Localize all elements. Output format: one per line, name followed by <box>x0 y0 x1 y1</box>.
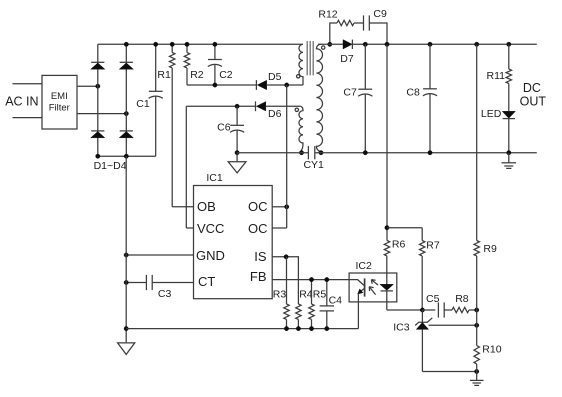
label IC1 <box>206 172 223 184</box>
transformer primary winding <box>299 44 303 85</box>
wire AC input top lead <box>13 83 43 85</box>
wire D6 anode to aux winding <box>266 105 301 107</box>
svg-text:C1: C1 <box>136 98 150 110</box>
transformer secondary winding <box>316 44 322 152</box>
svg-text:R9: R9 <box>483 243 497 255</box>
capacitor C3 <box>146 275 152 290</box>
svg-text:R10: R10 <box>482 344 501 356</box>
node C4 top <box>325 277 329 281</box>
label D5 <box>268 71 282 83</box>
pin label OC (upper) <box>248 199 268 214</box>
wire snubber left drop <box>330 23 337 44</box>
svg-text:R8: R8 <box>455 293 469 305</box>
wire VCC drop <box>185 106 187 228</box>
wire primary ground vertical <box>125 156 127 342</box>
svg-text:D7: D7 <box>340 53 354 65</box>
node IS tap R3 <box>284 255 288 259</box>
svg-text:D6: D6 <box>268 108 282 120</box>
node C7 top <box>363 42 367 46</box>
resistor R4 <box>296 304 301 329</box>
diode D4 (bridge lower-right) <box>119 131 133 138</box>
optocoupler IC2 box <box>349 273 397 302</box>
light arrow 2 <box>369 287 375 295</box>
node C6 tap <box>235 104 239 108</box>
shunt regulator IC3 <box>415 310 432 372</box>
label R4 <box>299 288 313 300</box>
wire bridge left leg <box>97 44 99 156</box>
svg-text:OB: OB <box>197 199 216 214</box>
wire HV top rail <box>98 43 303 45</box>
label R9 <box>483 243 497 255</box>
node C9/R6 rail <box>385 42 389 46</box>
capacitor C2 <box>208 44 222 85</box>
node C1 top <box>154 42 158 46</box>
svg-text:EMI: EMI <box>51 91 68 102</box>
transformer core <box>307 41 313 75</box>
wire GND pin <box>126 254 193 256</box>
label IC2 <box>356 260 373 272</box>
pin label OC (lower) <box>248 221 268 236</box>
svg-text:IS: IS <box>254 249 267 264</box>
node snubber left <box>328 42 332 46</box>
svg-text:IC2: IC2 <box>356 260 373 272</box>
wire bridge bottom <box>98 155 156 157</box>
svg-text:R3: R3 <box>273 288 287 300</box>
pin label GND <box>196 248 225 263</box>
resistor R12 <box>337 20 354 25</box>
label D7 <box>340 53 354 65</box>
wire IS pin <box>272 257 298 304</box>
node bridge right top <box>124 42 128 46</box>
label C7 <box>343 87 357 99</box>
label C5 <box>426 293 440 305</box>
node R6/R7 junction <box>385 226 389 230</box>
wire OC upper pin <box>272 206 287 208</box>
resistor R1 <box>170 44 175 207</box>
node R8 right <box>475 308 479 312</box>
svg-text:DC: DC <box>523 81 541 95</box>
label LED <box>481 108 502 120</box>
phototransistor emitter lead <box>358 288 365 328</box>
label R12 <box>318 8 337 20</box>
node aux winding bottom <box>299 151 303 155</box>
resistor R5 <box>309 280 314 329</box>
wire secondary rail to D7 <box>318 43 343 45</box>
label R5 <box>313 288 327 300</box>
capacitor C4 <box>320 280 334 329</box>
svg-text:OUT: OUT <box>520 94 547 108</box>
primary polarity dot <box>297 75 300 78</box>
svg-text:R1: R1 <box>157 69 171 81</box>
svg-text:AC IN: AC IN <box>5 95 38 109</box>
node EMI bottom / bridge right leg <box>124 111 128 115</box>
label D6 <box>268 108 282 120</box>
EMI filter label <box>49 91 70 114</box>
svg-text:R7: R7 <box>426 240 440 252</box>
node R2 top <box>185 42 189 46</box>
pin label CT <box>198 274 215 289</box>
opto LED <box>380 256 394 310</box>
wire D5 anode to drain node <box>267 84 303 86</box>
wire OC lower pin <box>272 227 287 229</box>
label R7 <box>426 240 440 252</box>
svg-text:VCC: VCC <box>197 221 224 236</box>
wire clamp (R2/C2 to D5 cathode) <box>187 84 256 86</box>
wire OB pin <box>172 206 193 208</box>
phototransistor collector lead <box>349 280 364 286</box>
svg-text:C4: C4 <box>329 294 343 306</box>
node R5 bottom <box>309 326 313 330</box>
wire VCC pin <box>186 227 193 229</box>
light arrow 1 <box>371 280 378 285</box>
wire CT pin right <box>152 282 193 284</box>
node bridge bottom right <box>124 154 128 158</box>
pin label IS <box>254 249 267 264</box>
svg-text:C2: C2 <box>219 69 233 81</box>
svg-text:IC3: IC3 <box>393 322 410 334</box>
capacitor CY1 <box>308 146 314 159</box>
node C8 top <box>428 42 432 46</box>
svg-text:OC: OC <box>248 221 268 236</box>
ground (earth) at R10 <box>470 372 484 386</box>
svg-text:FB: FB <box>250 269 267 284</box>
svg-text:C3: C3 <box>158 288 172 300</box>
label C3 <box>158 288 172 300</box>
wire R6-R7 bridge <box>387 227 422 229</box>
label DC OUT <box>520 81 547 109</box>
capacitor C9 <box>364 15 370 30</box>
wire node to C5 <box>422 309 435 311</box>
node reference junction <box>475 323 479 327</box>
resistor R10 <box>474 325 479 371</box>
label C9 <box>373 8 387 20</box>
label D1~D4 <box>94 160 127 172</box>
diode D6 <box>256 101 266 111</box>
ground (triangle) primary <box>118 343 135 355</box>
diode D7 <box>343 40 352 49</box>
transformer auxiliary winding <box>299 106 303 152</box>
svg-text:C7: C7 <box>343 87 357 99</box>
wire R12 to C9 <box>354 22 364 24</box>
svg-text:LED: LED <box>481 108 502 120</box>
svg-text:R4: R4 <box>299 288 313 300</box>
resistor R6 <box>384 44 389 256</box>
node CT tap <box>124 280 128 284</box>
resistor R11 <box>506 44 511 111</box>
node GND tap <box>124 253 128 257</box>
wire DC output rail <box>352 43 536 45</box>
label IC3 <box>393 322 410 334</box>
resistor R8 <box>452 307 469 312</box>
diode D1 (bridge upper-left) <box>91 62 105 69</box>
svg-text:R6: R6 <box>392 239 406 251</box>
wire R8 to R9 column <box>469 309 477 311</box>
wire AC input bottom lead <box>13 117 43 119</box>
diode D3 (bridge lower-left) <box>91 131 105 138</box>
label C1 <box>136 98 150 110</box>
svg-text:D5: D5 <box>268 71 282 83</box>
svg-text:C5: C5 <box>426 293 440 305</box>
label R10 <box>482 344 501 356</box>
svg-text:D1~D4: D1~D4 <box>94 160 127 172</box>
wire EMI output bottom <box>77 113 126 115</box>
node R9 top <box>475 42 479 46</box>
wire drain vertical <box>286 85 288 228</box>
node bridge bottom left <box>96 154 100 158</box>
svg-text:C6: C6 <box>217 122 231 134</box>
ground (earth) at output <box>502 153 517 169</box>
svg-text:C9: C9 <box>373 8 387 20</box>
wire opto LED cathode to node <box>387 309 423 311</box>
capacitor C7 <box>358 44 372 152</box>
wire snubber right drop <box>369 23 387 44</box>
wire reference <box>429 324 477 326</box>
AC IN label <box>5 95 38 109</box>
node anode/ground junction <box>475 369 479 373</box>
node C8 bottom <box>428 151 432 155</box>
label C8 <box>406 87 420 99</box>
node drain junction <box>285 83 289 87</box>
label R11 <box>487 70 506 82</box>
node C7 bottom <box>363 151 367 155</box>
svg-text:CT: CT <box>198 274 215 289</box>
pin label OB <box>197 199 216 214</box>
wire D6 cathode to VCC drop <box>186 105 255 107</box>
capacitor C1 <box>149 44 163 156</box>
label C2 <box>219 69 233 81</box>
EMI filter block <box>42 75 77 129</box>
wire bottom rail right segment <box>315 152 537 154</box>
svg-text:CY1: CY1 <box>303 159 324 171</box>
node C4 bottom <box>325 326 329 330</box>
node R3 bottom <box>284 326 288 330</box>
label R3 <box>273 288 287 300</box>
node R11 top <box>507 42 511 46</box>
node OC junction <box>285 205 289 209</box>
wire bridge right leg <box>125 44 127 156</box>
node compensation junction <box>420 308 424 312</box>
capacitor C6 <box>230 106 244 152</box>
node EMI top / bridge left leg <box>96 84 100 88</box>
label R2 <box>190 69 204 81</box>
svg-text:IC1: IC1 <box>206 172 223 184</box>
label R1 <box>157 69 171 81</box>
node R5 top <box>309 277 313 281</box>
wire CT pin left <box>126 282 146 284</box>
wire R9 node to ref node <box>476 310 478 325</box>
resistor R9 <box>474 44 479 310</box>
diode D5 <box>256 80 266 90</box>
aux polarity dot <box>295 108 298 111</box>
wire EMI output top <box>77 85 98 87</box>
label CY1 <box>303 159 324 171</box>
node LED bottom <box>507 151 511 155</box>
capacitor C5 <box>438 302 444 317</box>
pin label FB <box>250 269 267 284</box>
wire C5 to R8 <box>444 309 452 311</box>
label C6 <box>217 122 231 134</box>
wire FB pin <box>272 279 349 281</box>
pin label VCC <box>197 221 224 236</box>
node R1 top <box>170 42 174 46</box>
svg-text:R12: R12 <box>318 8 337 20</box>
svg-text:Filter: Filter <box>49 103 70 114</box>
wire IC3 anode to ground node <box>422 371 476 373</box>
node secondary winding bottom <box>319 151 323 155</box>
label R8 <box>455 293 469 305</box>
svg-text:OC: OC <box>248 199 268 214</box>
node ground wire tap <box>124 326 128 330</box>
LED indicator <box>502 111 515 152</box>
resistor R7 <box>420 228 425 310</box>
svg-text:GND: GND <box>196 248 225 263</box>
node C2 top <box>213 42 217 46</box>
op-amp/controller IC1 box <box>194 186 273 299</box>
svg-text:R11: R11 <box>487 70 506 82</box>
diode D2 (bridge upper-right) <box>119 62 133 69</box>
ground (triangle) at C6 <box>228 153 246 173</box>
wire primary ground bus <box>126 328 358 330</box>
resistor R2 <box>184 44 189 85</box>
resistor R3 <box>284 257 289 329</box>
node R4 bottom <box>296 326 300 330</box>
node C2 bottom <box>213 83 217 87</box>
capacitor C8 <box>423 44 437 152</box>
label R6 <box>392 239 406 251</box>
phototransistor base bar <box>364 278 366 296</box>
secondary polarity dot <box>322 46 325 49</box>
svg-text:C8: C8 <box>406 87 420 99</box>
svg-text:R5: R5 <box>313 288 327 300</box>
svg-text:R2: R2 <box>190 69 204 81</box>
node C6 bottom / rail <box>235 151 239 155</box>
label C4 <box>329 294 343 306</box>
wire bottom rail left segment <box>237 152 308 154</box>
